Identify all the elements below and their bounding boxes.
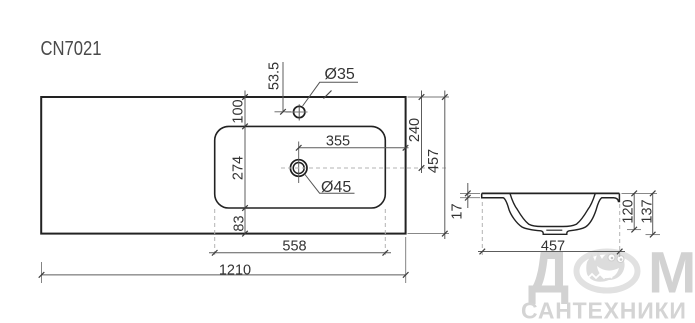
svg-text:274: 274 [231, 156, 247, 180]
svg-text:240: 240 [407, 118, 423, 142]
svg-text:137: 137 [640, 199, 656, 223]
svg-text:355: 355 [326, 134, 350, 150]
svg-text:83: 83 [232, 215, 248, 231]
svg-text:17: 17 [450, 203, 466, 219]
svg-text:457: 457 [426, 149, 442, 173]
svg-text:457: 457 [541, 239, 565, 255]
svg-text:53.5: 53.5 [267, 62, 283, 90]
svg-text:CN7021: CN7021 [41, 37, 102, 60]
svg-text:100: 100 [231, 99, 247, 123]
svg-text:САНТЕХНИКИ: САНТЕХНИКИ [521, 298, 687, 323]
svg-text:Ø45: Ø45 [321, 179, 351, 196]
svg-text:558: 558 [282, 239, 306, 255]
svg-text:1210: 1210 [219, 263, 251, 279]
svg-text:Ø35: Ø35 [325, 66, 355, 83]
svg-text:120: 120 [621, 199, 637, 223]
svg-text:М: М [648, 241, 695, 306]
